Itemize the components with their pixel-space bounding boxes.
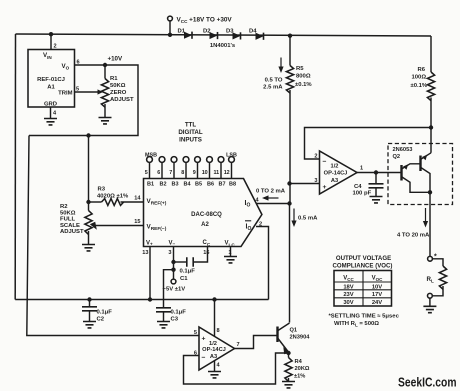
output terminal [428,256,433,261]
svg-text:VREF(+): VREF(+) [147,198,167,207]
svg-text:11: 11 [213,170,219,176]
wire R5 to Io node [289,90,291,204]
capacitor C3 [156,308,171,312]
resistor R1 50K zero adjust [104,65,106,79]
svg-text:24V: 24V [372,300,382,306]
wire Q2 emitter to R6 node [430,128,432,153]
svg-text:10V: 10V [372,284,382,290]
svg-text:COMPLIANCE (VOC): COMPLIANCE (VOC) [333,263,393,270]
wire pin 8 from Vcc bus [212,297,216,301]
svg-text:4 TO 20 mA: 4 TO 20 mA [397,233,430,239]
svg-text:C4: C4 [354,184,362,190]
svg-text:±0.1%: ±0.1% [295,82,312,88]
svg-text:B1: B1 [147,182,154,188]
transistor Q2 output [419,156,421,172]
transistor Q2 driver [400,165,402,181]
wire feedback pin2 [305,128,432,160]
wire V- pin3 [173,247,175,280]
svg-text:7: 7 [169,170,172,176]
transistor Q1 2N3904 [276,327,278,343]
resistor R5 800 ohm [289,36,291,66]
svg-text:B3: B3 [171,182,178,188]
digital input terminal bit 2 [159,157,165,163]
wire +10V down to A3 pin5 bus [27,136,199,336]
svg-text:+: + [323,184,327,191]
ground RL [423,306,436,312]
svg-text:9: 9 [193,170,196,176]
svg-text:Q2: Q2 [393,154,401,160]
wire Vcc left border [14,34,16,300]
svg-text:±1%: ±1% [294,374,305,380]
wire Q2 collector to output terminal [429,192,431,256]
ground C4 [370,197,383,203]
wire R2 wiper to pin 15 [96,225,144,227]
diode D1 [184,32,192,39]
svg-text:C2: C2 [97,317,105,323]
svg-text:B7: B7 [218,182,225,188]
svg-text:R5: R5 [296,66,304,72]
node pin3 junction [287,181,291,185]
svg-text:8: 8 [181,170,184,176]
svg-text:17V: 17V [372,292,382,298]
ground R4 [282,382,295,388]
node Io junction [287,201,291,205]
resistor R3 4020 ohm [89,201,102,203]
node junction R2/R3 branch [86,133,90,137]
svg-text:50KΩ: 50KΩ [110,83,126,89]
svg-text:ADJUST: ADJUST [110,97,134,103]
svg-text:Q1: Q1 [290,328,298,334]
digital input terminal bit 3 [171,157,177,163]
svg-text:8: 8 [217,328,220,334]
resistor R4 20K [288,353,290,358]
svg-text:DIGITAL: DIGITAL [178,129,203,136]
svg-text:RL: RL [427,276,434,284]
svg-text:4: 4 [217,363,221,369]
svg-text:VLC: VLC [225,241,236,248]
wire TRIM wiper [75,91,98,93]
terminal -5V [171,279,176,284]
svg-text:50KΩ: 50KΩ [60,210,76,216]
current arrow left [264,197,279,199]
capacitor C2 [87,297,91,301]
ground Vlc [224,257,237,263]
svg-text:0.1μF: 0.1μF [171,310,187,316]
svg-text:+10V: +10V [108,56,123,63]
digital input terminal bit 5 [195,157,201,163]
svg-text:5: 5 [145,170,148,176]
svg-text:GRD: GRD [44,102,57,108]
wire V+ pin13 to Vcc bus [149,247,151,300]
svg-text:D3: D3 [226,29,234,35]
svg-text:2: 2 [54,44,57,50]
svg-text:4: 4 [256,198,260,204]
svg-text:R3: R3 [98,187,106,193]
svg-text:R1: R1 [110,76,118,82]
svg-text:3: 3 [314,178,317,184]
svg-text:5: 5 [194,330,197,336]
voltage reference A1 REF-01CJ box [28,50,75,108]
svg-text:0.5 TO: 0.5 TO [265,78,283,84]
svg-text:B4: B4 [183,182,191,188]
node Q2 collector [428,190,432,194]
svg-text:REF-01CJ: REF-01CJ [37,77,65,83]
svg-text:OP-14CJ: OP-14CJ [202,347,226,353]
svg-text:0 TO 2 mA: 0 TO 2 mA [256,189,286,195]
svg-text:±0.1%: ±0.1% [411,83,428,89]
svg-text:ZERO: ZERO [110,90,127,96]
svg-text:IO: IO [245,200,251,209]
svg-text:D2: D2 [203,29,211,35]
DAC A2 DAC-08CQ outline [144,179,262,247]
svg-text:16: 16 [203,250,209,256]
svg-text:−: − [202,355,206,362]
ground R1 [99,118,112,124]
wire A1 ground pin 4 [50,107,52,118]
node R5 top junction [288,34,292,38]
svg-text:4020Ω ±1%: 4020Ω ±1% [97,194,129,200]
diode D4 [256,33,264,40]
svg-text:−5V ±1V: −5V ±1V [163,287,186,293]
svg-text:C3: C3 [171,317,179,323]
svg-text:14: 14 [134,196,141,202]
svg-text:A3: A3 [331,178,338,184]
svg-text:A3: A3 [210,354,217,360]
svg-text:OP-14CJ: OP-14CJ [324,170,348,176]
svg-text:20KΩ: 20KΩ [295,366,310,372]
ground R2 [82,245,95,251]
wire Vcc top rail [16,34,432,36]
digital input terminal bit 8 [229,157,235,163]
svg-text:A1: A1 [47,85,55,91]
svg-text:VCC +18V TO +30V: VCC +18V TO +30V [177,17,233,25]
wire to A1 Vin [50,34,52,49]
wire output pin 7 to Q1 base [235,336,277,349]
svg-text:0.1μF: 0.1μF [180,269,196,275]
wire Io pin4 to summing node [256,203,290,205]
svg-text:VIN: VIN [43,52,52,60]
current arrow 4 TO 20 mA [425,208,427,221]
svg-text:0.1μF: 0.1μF [97,310,113,316]
wire R3 to pin 14 [121,201,144,203]
op-amp A3 lower half OP-14CJ [199,327,235,370]
svg-text:1/2: 1/2 [209,341,217,347]
transistor Q2 2N6053 dashed box [388,144,453,205]
svg-text:7: 7 [237,342,240,348]
node R6 bottom / feedback [429,125,433,129]
ground C2 [83,322,96,328]
resistor RL load [432,259,443,266]
svg-text:VOC: VOC [372,276,384,283]
svg-text:10: 10 [202,170,208,176]
diode D3 [233,32,241,39]
svg-text:TRIM: TRIM [58,91,72,97]
svg-text:VO: VO [62,63,70,71]
svg-text:3: 3 [168,250,171,256]
svg-text:1N4001's: 1N4001's [210,43,236,49]
resistor R6 100 ohm [430,36,432,72]
svg-text:CC: CC [203,240,211,247]
svg-text:LSB: LSB [226,153,237,159]
wire +10V to R3/R2 [88,136,90,203]
wire to op-amp A3 pin 3 [290,183,320,185]
bottom terminal [428,293,433,298]
svg-text:A2: A2 [201,222,209,228]
wire feedback pin 6 [184,353,289,384]
wire Vcc bottom bus [15,299,268,301]
current arrow 0.5 mA down [293,209,295,221]
svg-text:VREF(−): VREF(−) [147,224,167,233]
svg-text:B2: B2 [159,182,166,188]
svg-text:15: 15 [134,219,140,225]
svg-text:DAC-08CQ: DAC-08CQ [191,212,222,218]
wire +10V from Vo [29,65,138,136]
resistor R2 50K full scale adjust [88,202,90,211]
svg-text:INPUTS: INPUTS [179,137,202,144]
ground A1 [44,119,57,125]
svg-text:V−: V− [169,241,176,247]
digital input terminal bit 1 [147,157,153,163]
svg-text:B5: B5 [195,182,202,188]
capacitor compensation Cc [174,261,187,263]
svg-text:12: 12 [224,170,230,176]
wire 0.5mA node down to Q1 collector [289,204,291,323]
svg-text:ADJUST: ADJUST [60,229,84,235]
svg-text:FULL: FULL [60,217,75,223]
svg-text:D1: D1 [178,29,186,35]
svg-text:23V: 23V [343,292,353,298]
svg-text:*SETTLING TIME ≈ 5μsec: *SETTLING TIME ≈ 5μsec [329,314,400,320]
wire V- to C3 [164,270,174,308]
svg-text:R4: R4 [295,359,303,365]
wire op-amp output to Q2 base [357,172,402,174]
svg-text:1: 1 [360,165,363,171]
current arrow 0.5 to 2.5 mA [280,58,282,67]
svg-text:V+: V+ [146,241,153,247]
ground op-amp [208,372,221,378]
svg-text:R2: R2 [60,204,68,210]
svg-text:−: − [323,158,327,165]
svg-text:VCC: VCC [343,276,354,283]
svg-text:100Ω: 100Ω [412,75,427,81]
svg-text:2: 2 [259,221,262,227]
wire pin 4 to ground [214,361,216,371]
svg-text:D4: D4 [249,29,257,35]
svg-text:C1: C1 [180,276,188,282]
svg-text:18V: 18V [343,284,353,290]
svg-text:B6: B6 [207,182,214,188]
svg-text:B8: B8 [229,182,236,188]
svg-text:OUTPUT VOLTAGE: OUTPUT VOLTAGE [336,255,391,262]
svg-text:100 pF: 100 pF [353,191,372,197]
svg-text:6: 6 [157,170,160,176]
wire Io-bar to Vcc bus [256,227,269,300]
wire Vlc pin1 [230,247,232,257]
svg-text:30V: 30V [343,300,353,306]
node R3/R2 junction [86,200,90,204]
svg-text:800Ω: 800Ω [296,74,311,80]
node Q1 emitter [286,351,290,355]
svg-text:4: 4 [53,111,57,117]
digital input terminal bit 6 [207,157,213,163]
svg-text:2N3904: 2N3904 [290,335,311,341]
svg-text:SCALE: SCALE [60,223,80,229]
capacitor C4 100pF [375,173,377,184]
ground C3 [157,322,170,328]
svg-text:13: 13 [142,250,148,256]
op-amp A3 upper half OP-14CJ [320,151,358,194]
svg-text:+: + [202,335,206,342]
svg-text:WITH RL = 500Ω: WITH RL = 500Ω [334,321,379,328]
node +10V junction R1 [103,63,107,67]
svg-text:R6: R6 [418,67,426,73]
svg-text:TTL: TTL [185,122,197,129]
svg-text:2N6053: 2N6053 [393,147,413,153]
diode D2 [210,32,218,39]
node junction to A1 [49,32,53,36]
svg-text:0.5 mA: 0.5 mA [298,216,318,222]
svg-text:2.5 mA: 2.5 mA [263,85,283,91]
svg-text:SeekIC.com: SeekIC.com [398,375,457,390]
digital input terminal bit 4 [183,157,189,163]
Vcc terminal [168,16,173,21]
svg-text:IO: IO [246,224,252,233]
svg-text:1/2: 1/2 [331,163,339,169]
digital input terminal bit 7 [218,157,224,163]
